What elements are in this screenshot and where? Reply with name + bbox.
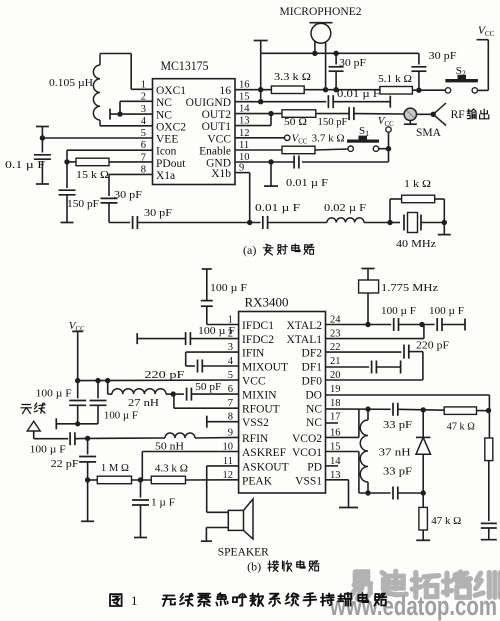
- wire 22pF to stub down: [87, 480, 89, 521]
- ground R11: [422, 530, 424, 540]
- svg-text:0.105 µH: 0.105 µH: [49, 77, 93, 89]
- svg-text:1.775 MHz: 1.775 MHz: [381, 282, 438, 294]
- svg-text:33 pF: 33 pF: [383, 419, 412, 431]
- microphone MIC2 symbol: [311, 23, 331, 43]
- junction C7 bottom: [416, 88, 421, 93]
- svg-text:3.3 k Ω: 3.3 k Ω: [274, 71, 311, 83]
- wire pin23 riser: [326, 338, 424, 340]
- resistor R1 15k: [67, 161, 76, 163]
- junction cap2 on pin5: [95, 378, 100, 383]
- svg-text:NC: NC: [306, 417, 322, 429]
- svg-text:NC: NC: [156, 97, 172, 109]
- wire pin16 to resistor: [235, 89, 271, 91]
- wire pin18 rail: [326, 408, 391, 410]
- junction antenna node: [85, 436, 90, 441]
- wire caps to stub: [56, 423, 77, 425]
- svg-text:IFDC1: IFDC1: [242, 320, 274, 332]
- junction crystal right: [442, 220, 447, 225]
- wire pin19 DO: [326, 394, 490, 396]
- wire R9 to cap: [488, 461, 490, 521]
- ground speaker: [201, 540, 212, 542]
- wire inductor top to pin1: [100, 53, 131, 55]
- svg-text:Enable: Enable: [199, 146, 231, 158]
- stub pin8: [206, 416, 208, 428]
- junction caps bottom: [75, 421, 80, 426]
- wire pin7 riser: [173, 394, 175, 408]
- wire S1 to corner: [379, 148, 389, 150]
- junction pin14: [268, 111, 273, 116]
- wire R4 to S2: [412, 89, 445, 91]
- svg-text:XTAL2: XTAL2: [287, 320, 323, 332]
- svg-text:ASKOUT: ASKOUT: [242, 461, 289, 473]
- mic lead left: [314, 42, 316, 54]
- svg-text:NC: NC: [306, 404, 322, 416]
- svg-text:1: 1: [131, 593, 138, 608]
- ground crystal: [443, 223, 445, 235]
- svg-text:100 µ F: 100 µ F: [210, 282, 247, 294]
- wire R6 to S1: [315, 149, 348, 150]
- ground right rail: [481, 539, 497, 541]
- wire C21 to stub: [442, 324, 465, 326]
- junction C6 top: [333, 51, 338, 56]
- svg-text:OUIGND: OUIGND: [186, 97, 231, 109]
- svg-text:MC13175: MC13175: [161, 59, 209, 73]
- svg-text:18: 18: [330, 398, 341, 409]
- wire pin8: [207, 421, 239, 423]
- ground SMA: [409, 121, 411, 125]
- svg-text:OUT2: OUT2: [202, 109, 232, 121]
- wire antenna node to 50nH: [88, 437, 165, 439]
- svg-text:VCC: VCC: [242, 376, 266, 388]
- stub top-left of rail: [260, 41, 262, 54]
- wire pin9 X1b down: [235, 172, 250, 174]
- crystal Y2 1.775MHz: [362, 268, 375, 270]
- junction Icon/PDout: [64, 159, 69, 164]
- IC U1 MC13175 body: [153, 79, 236, 185]
- wire pin15 riser to bottom rail: [326, 451, 359, 453]
- capacitor C16 50pF: [173, 393, 184, 395]
- svg-text:SPEAKER: SPEAKER: [218, 547, 269, 559]
- svg-text:ASKREF: ASKREF: [242, 447, 286, 459]
- capacitor C13 220pF: [186, 365, 195, 367]
- wire Vcc tap down to S1 node: [388, 132, 390, 148]
- svg-text:30 pF: 30 pF: [339, 57, 366, 69]
- wire pin11: [235, 149, 282, 151]
- junction S1 node: [386, 146, 391, 151]
- svg-text:100 µ F: 100 µ F: [381, 306, 416, 317]
- wire SMA to fork: [417, 113, 434, 115]
- svg-text:VCO2: VCO2: [292, 433, 322, 445]
- top rail wire: [261, 52, 419, 54]
- stub bar pin24 right: [464, 319, 466, 331]
- junction rail/pin15: [258, 99, 263, 104]
- svg-text:0.02 µ F: 0.02 µ F: [324, 202, 366, 214]
- mic lead right: [325, 43, 327, 90]
- svg-text:40 MHz: 40 MHz: [396, 238, 436, 250]
- wire pin24: [326, 324, 392, 326]
- capacitor C24 right rail: [481, 522, 497, 524]
- svg-text:X1a: X1a: [156, 170, 175, 182]
- junction 27nH on pin5: [105, 378, 110, 383]
- svg-text:MIXIN: MIXIN: [242, 390, 277, 402]
- capacitor C19 1uF: [140, 480, 142, 498]
- svg-text:30 pF: 30 pF: [144, 207, 172, 219]
- junction rail/pin16: [258, 87, 263, 92]
- wire rail down to pin16/pin15: [260, 53, 262, 101]
- capacitor C18 22pF: [87, 438, 89, 454]
- wire R10 to DO rail: [477, 410, 489, 412]
- svg-text:100 µ F: 100 µ F: [30, 444, 66, 456]
- junction mic right on pin16 net: [323, 87, 328, 92]
- svg-text:100 µ F: 100 µ F: [36, 388, 72, 400]
- resistor R3 3.3k: [271, 86, 304, 94]
- wire diode node down: [422, 493, 424, 507]
- svg-text:0.01 µ F: 0.01 µ F: [286, 177, 328, 189]
- capacitor C14 100uF: [77, 381, 79, 399]
- wire cap to junction: [75, 437, 88, 439]
- junction crystal left: [387, 220, 392, 225]
- svg-text:MIXOUT: MIXOUT: [242, 362, 288, 374]
- svg-text:30 pF: 30 pF: [429, 50, 457, 62]
- wire pin22: [326, 351, 402, 353]
- wire C25 to diode node: [398, 408, 444, 411]
- wire C22 to pin20 riser: [409, 351, 423, 353]
- stub pin2 left: [136, 333, 138, 344]
- svg-text:150 pF: 150 pF: [318, 116, 348, 128]
- svg-text:IFIN: IFIN: [242, 348, 265, 360]
- wire C26 to diode bottom: [398, 492, 423, 494]
- capacitor C23 pin21: [371, 361, 373, 374]
- inductor L4 50nH: [165, 433, 195, 438]
- junction R7/R8 node: [138, 477, 143, 482]
- diode D1: [422, 410, 424, 438]
- svg-text:VSS2: VSS2: [242, 417, 269, 429]
- svg-text:4.3 k Ω: 4.3 k Ω: [155, 463, 188, 475]
- svg-text:PDout: PDout: [156, 158, 186, 170]
- junction vcc rail/pin5: [75, 378, 80, 383]
- wire S1 node down to pin10 net: [388, 149, 390, 162]
- svg-text:50 pF: 50 pF: [195, 382, 221, 393]
- stub bar pin3: [109, 109, 111, 120]
- svg-text:16: 16: [239, 80, 250, 91]
- wire pin12: [235, 137, 285, 139]
- svg-text:5.1 k Ω: 5.1 k Ω: [378, 73, 412, 85]
- svg-text:VCC: VCC: [207, 133, 231, 145]
- junction C6 bottom: [333, 87, 338, 92]
- svg-text:47 k Ω: 47 k Ω: [447, 421, 475, 433]
- inductor L5 37nH: [367, 409, 369, 420]
- svg-text:0.01 µ F: 0.01 µ F: [337, 89, 380, 100]
- svg-text:100 µ F: 100 µ F: [104, 410, 138, 422]
- wire pin3 hook: [186, 351, 239, 353]
- svg-text:VEE: VEE: [156, 134, 178, 146]
- wire pin5 VCC long: [78, 379, 239, 382]
- wire VEE pin5: [42, 137, 152, 139]
- wire pin2 stub: [120, 100, 153, 102]
- resistor R7 1M: [88, 479, 98, 481]
- junction pin2/pin3: [117, 111, 122, 116]
- wire inductor bottom to pin4: [100, 125, 153, 127]
- resistor R4 5.1k: [380, 87, 413, 95]
- wire pin16 riser to rail: [326, 436, 359, 438]
- svg-text:21: 21: [330, 356, 341, 367]
- connector SMA: [404, 108, 416, 120]
- wire pin15: [235, 101, 326, 103]
- caption 图 1: [110, 594, 122, 606]
- junction pin10 gnd stub: [268, 159, 273, 164]
- Vcc rail receiver: [77, 331, 79, 380]
- junction pin23 riser top: [419, 322, 424, 327]
- inductor L2 0.02uF: [327, 218, 364, 223]
- svg-text:220 pF: 220 pF: [144, 369, 184, 381]
- capacitor C8 0.01uF pin15: [327, 95, 329, 108]
- capacitor C10 0.01uF pin10: [293, 156, 295, 169]
- svg-text:220 pF: 220 pF: [416, 340, 449, 352]
- wire pin10 riser: [142, 451, 238, 453]
- wire pin21: [326, 366, 370, 368]
- inductor L1 0.105uH: [99, 54, 101, 66]
- svg-text:100 µ F: 100 µ F: [429, 306, 464, 317]
- capacitor C3 30pF: [101, 197, 118, 199]
- svg-text:RX3400: RX3400: [245, 296, 289, 310]
- capacitor C22 220pF: [403, 345, 405, 359]
- svg-text:OXC2: OXC2: [156, 122, 186, 134]
- capacitor C1 0.1uF: [41, 138, 43, 153]
- svg-text:0.1 µ F: 0.1 µ F: [5, 159, 45, 171]
- svg-text:47 k Ω: 47 k Ω: [431, 515, 461, 527]
- svg-text:100 µ F: 100 µ F: [198, 325, 235, 337]
- wire S2 to Vcc rail: [478, 89, 489, 91]
- svg-text:RFOUT: RFOUT: [242, 404, 280, 416]
- inductor L3 27nH: [107, 381, 109, 395]
- svg-text:SMA: SMA: [416, 127, 442, 139]
- svg-text:MICROPHONE2: MICROPHONE2: [280, 4, 362, 18]
- stub bar pin21: [400, 361, 402, 374]
- caption title text: [163, 596, 176, 607]
- Vcc tap circle upper: [386, 127, 391, 132]
- ground pin13: [339, 507, 358, 509]
- wire R8 to pin12: [186, 479, 239, 481]
- antenna symbol: [21, 405, 32, 414]
- capacitor C25 33pF top: [392, 403, 394, 416]
- wire 50nH to pin9: [195, 436, 239, 439]
- wire pin13 riser: [235, 125, 271, 127]
- wire pin10: [235, 161, 294, 163]
- node VEE rail top stub: [41, 127, 43, 139]
- capacitor C2 150pF: [66, 162, 68, 188]
- resistor R5 50ohm: [282, 110, 316, 118]
- wire pin8 X1a down: [109, 173, 153, 175]
- wire R7 to node: [132, 479, 152, 481]
- svg-text:1 M Ω: 1 M Ω: [101, 462, 129, 474]
- svg-text:PD: PD: [307, 461, 322, 473]
- svg-text:DF1: DF1: [302, 362, 323, 374]
- wire pin17 stub: [326, 422, 339, 424]
- stub bar left of caps: [55, 418, 57, 429]
- wire bottom net X1b: [109, 222, 130, 224]
- wire coil to crystal node: [364, 222, 390, 224]
- svg-text:NC: NC: [156, 110, 172, 122]
- wire antenna to cap: [34, 438, 68, 440]
- svg-text:OUT1: OUT1: [202, 121, 232, 133]
- capacitor C20 100uF: [393, 318, 395, 331]
- wire cap to coil: [268, 222, 327, 224]
- Vcc rail top right: [487, 40, 489, 91]
- capacitor C21 100uF: [436, 318, 438, 331]
- svg-text:1 µ F: 1 µ F: [151, 497, 175, 509]
- junction coil top: [365, 406, 370, 411]
- svg-text:RFIN: RFIN: [242, 433, 269, 445]
- capacitor C12 100uF pin2: [185, 332, 187, 345]
- junction diode bottom: [421, 490, 426, 495]
- svg-text:VSS1: VSS1: [295, 475, 322, 487]
- junction RF fork: [431, 112, 436, 117]
- speaker bottom lead: [206, 527, 228, 529]
- capacitor C4 30pF: [132, 216, 134, 229]
- svg-text:37 nH: 37 nH: [379, 447, 411, 459]
- wire C23 to stub: [376, 366, 400, 368]
- svg-text:Icon: Icon: [156, 146, 177, 158]
- wire pin11 to speaker: [207, 465, 239, 467]
- junction mic left on rail: [312, 51, 317, 56]
- wire C9 to SMA: [354, 113, 405, 115]
- svg-text:150 pF: 150 pF: [67, 198, 99, 210]
- junction 22pF bottom: [85, 477, 90, 482]
- resistor R2 1k: [389, 199, 391, 223]
- svg-text:XTAL1: XTAL1: [287, 334, 323, 346]
- switch S2: [445, 88, 450, 93]
- wire pin13 to ground: [326, 479, 349, 481]
- junction 27nH/50pF/pin7: [171, 391, 176, 396]
- resistor R8 4.3k: [151, 476, 185, 484]
- capacitor C15 100uF: [97, 381, 99, 399]
- stub bar pin15 right: [389, 96, 391, 108]
- svg-text:50 Ω: 50 Ω: [284, 116, 307, 128]
- svg-text:X1b: X1b: [211, 168, 231, 180]
- svg-text:0.01 µ F: 0.01 µ F: [255, 202, 300, 214]
- svg-text:19: 19: [330, 384, 341, 395]
- capacitor C17 100uF antenna: [69, 432, 71, 445]
- capacitor C26 33pF bottom: [392, 487, 394, 500]
- svg-text:17: 17: [330, 412, 341, 423]
- Vcc tap circle pin12: [285, 135, 290, 140]
- capacitor C6 30pF near mic: [335, 53, 337, 64]
- wire pin14: [235, 113, 282, 115]
- svg-text:(a): (a): [243, 243, 256, 257]
- svg-text:www.edatop.com: www.edatop.com: [329, 591, 497, 621]
- svg-text:IFDC2: IFDC2: [242, 334, 274, 346]
- capacitor C11 100uF pin1: [201, 300, 213, 302]
- IC U2 RX3400 body: [239, 312, 326, 494]
- capacitor C9 150pF: [348, 107, 350, 120]
- svg-text:22 pF: 22 pF: [51, 458, 79, 470]
- svg-text:16: 16: [220, 85, 232, 97]
- junction diode top: [421, 407, 426, 412]
- svg-text:DF2: DF2: [302, 348, 323, 360]
- capacitor C7 30pF right: [418, 53, 420, 64]
- resistor R10 47k: [444, 407, 476, 415]
- wire DO down right edge: [488, 395, 490, 438]
- svg-text:PEAK: PEAK: [242, 475, 273, 487]
- speaker SPK1: [228, 510, 243, 530]
- svg-text:1 k Ω: 1 k Ω: [404, 178, 431, 190]
- svg-text:DF0: DF0: [302, 376, 323, 388]
- junction DO/47k: [486, 408, 491, 413]
- wire pin6 to node: [67, 149, 153, 151]
- watermark 易迪拓培训: [350, 572, 371, 599]
- crystal Y1 40MHz: [390, 222, 400, 224]
- junction coil bottom: [365, 490, 370, 495]
- wire resistor to pin7: [109, 161, 153, 163]
- wire R3 to 5.1k: [304, 89, 380, 91]
- svg-text:33 pF: 33 pF: [383, 466, 412, 478]
- wire pin2: [137, 338, 185, 340]
- svg-text:3.7 k Ω: 3.7 k Ω: [312, 133, 345, 145]
- svg-text:RF: RF: [451, 109, 465, 121]
- resistor R11 47k vertical: [419, 507, 428, 530]
- RF output fork: [433, 103, 446, 114]
- resistor R6 3.7k: [282, 146, 315, 154]
- resistor R9 vertical: [485, 438, 493, 461]
- wire C8 to stub: [333, 101, 390, 103]
- junction X1b bottom: [247, 220, 252, 225]
- junction crystal/pin24: [365, 322, 370, 327]
- wire C20 to junction: [399, 324, 435, 326]
- svg-text:(b): (b): [247, 560, 261, 574]
- svg-text:30 pF: 30 pF: [114, 189, 142, 201]
- wire pin14 stub: [326, 465, 339, 467]
- svg-text:DO: DO: [305, 390, 322, 402]
- svg-text:VCO1: VCO1: [292, 447, 322, 459]
- switch S1: [348, 146, 353, 151]
- capacitor C5 0.01uF: [262, 216, 264, 229]
- svg-text:27 nH: 27 nH: [128, 397, 159, 409]
- wire R5 to C9: [316, 113, 349, 115]
- svg-text:15 k Ω: 15 k Ω: [76, 169, 109, 181]
- ground pin10: [270, 162, 272, 186]
- wire pin3 stub: [110, 113, 153, 115]
- junction VEE rail: [40, 135, 45, 140]
- svg-text:OXC1: OXC1: [156, 85, 186, 97]
- wire pin1 corner: [207, 324, 239, 326]
- wire cap to junction: [137, 222, 260, 224]
